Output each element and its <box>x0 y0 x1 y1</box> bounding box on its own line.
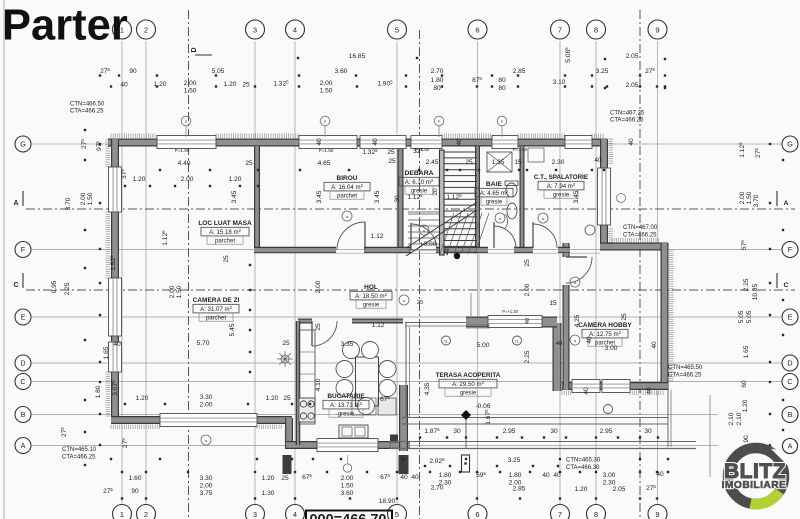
svg-text:40: 40 <box>542 472 550 479</box>
svg-text:3: 3 <box>253 510 257 519</box>
svg-text:1.65: 1.65 <box>743 345 750 358</box>
svg-text:G: G <box>787 140 793 149</box>
svg-text:6: 6 <box>475 510 479 519</box>
svg-text:P=1.50: P=1.50 <box>319 148 334 153</box>
svg-text:2.00: 2.00 <box>184 80 197 87</box>
svg-text:1.12: 1.12 <box>372 322 385 329</box>
svg-text:40: 40 <box>456 138 463 146</box>
svg-text:5.05: 5.05 <box>212 68 225 75</box>
svg-text:A: 4.65 m2: A: 4.65 m2 <box>480 189 509 197</box>
svg-text:CTN=467.00: CTN=467.00 <box>623 225 658 231</box>
svg-text:parchet: parchet <box>215 238 235 244</box>
svg-text:3.00: 3.00 <box>605 345 618 352</box>
svg-text:1.20: 1.20 <box>136 395 149 402</box>
svg-text:7: 7 <box>558 510 562 519</box>
svg-text:80: 80 <box>498 77 506 84</box>
svg-text:u: u <box>403 298 405 303</box>
svg-text:25: 25 <box>524 259 531 267</box>
svg-text:3.35: 3.35 <box>341 341 354 348</box>
svg-text:2: 2 <box>144 25 148 34</box>
svg-text:4: 4 <box>293 510 297 519</box>
svg-text:gresie: gresie <box>460 390 477 396</box>
svg-text:15: 15 <box>514 159 522 166</box>
svg-text:16.85: 16.85 <box>349 53 366 60</box>
svg-text:7: 7 <box>558 25 562 34</box>
svg-text:u: u <box>574 280 576 285</box>
svg-text:9: 9 <box>655 510 659 519</box>
svg-text:90: 90 <box>129 68 137 75</box>
svg-text:CTN=467.25: CTN=467.25 <box>610 111 645 117</box>
svg-text:3.45: 3.45 <box>374 190 381 203</box>
svg-text:1.80: 1.80 <box>431 77 444 84</box>
svg-text:1.20: 1.20 <box>133 176 146 183</box>
svg-text:2.85: 2.85 <box>513 486 526 493</box>
svg-text:2.10: 2.10 <box>728 412 735 425</box>
svg-text:E: E <box>21 313 26 322</box>
svg-text:25: 25 <box>387 149 395 156</box>
svg-text:2.00: 2.00 <box>524 283 531 296</box>
svg-text:18.90: 18.90 <box>379 498 396 505</box>
svg-text:parchet: parchet <box>206 315 226 321</box>
svg-text:P=1.90: P=1.90 <box>175 148 190 153</box>
svg-text:LOC LUAT MASA: LOC LUAT MASA <box>198 220 252 227</box>
svg-text:1.50: 1.50 <box>184 88 197 95</box>
svg-text:80: 80 <box>433 85 441 92</box>
svg-text:20: 20 <box>432 188 439 196</box>
svg-text:CAMERA HOBBY: CAMERA HOBBY <box>578 322 632 329</box>
svg-text:CAMERA DE ZI: CAMERA DE ZI <box>193 297 240 304</box>
svg-text:25: 25 <box>282 340 290 347</box>
svg-text:40: 40 <box>113 341 121 348</box>
svg-text:C.T., SPALATORIE: C.T., SPALATORIE <box>534 174 588 181</box>
svg-text:25: 25 <box>281 475 289 482</box>
svg-text:2.30: 2.30 <box>552 159 565 166</box>
svg-text:A: A <box>13 200 18 207</box>
svg-text:G: G <box>20 140 26 149</box>
svg-text:5.00: 5.00 <box>477 342 490 349</box>
svg-text:A: 29.50 m2: A: 29.50 m2 <box>452 380 484 388</box>
svg-text:P=+1.30: P=+1.30 <box>502 309 519 314</box>
svg-text:2.25: 2.25 <box>524 350 531 363</box>
svg-text:9.95: 9.95 <box>51 280 58 293</box>
svg-text:2.95: 2.95 <box>503 428 516 435</box>
svg-text:40: 40 <box>556 341 562 347</box>
svg-text:3.30: 3.30 <box>200 394 213 401</box>
svg-text:A: 15.18 m2: A: 15.18 m2 <box>209 228 241 236</box>
svg-text:1.50: 1.50 <box>87 192 94 205</box>
svg-text:2.05: 2.05 <box>613 486 626 493</box>
svg-text:A: A <box>784 200 789 207</box>
svg-text:u: u <box>346 214 348 219</box>
svg-text:1.50: 1.50 <box>341 483 354 490</box>
svg-text:A: 18.50 m2: A: 18.50 m2 <box>355 292 387 300</box>
svg-text:D: D <box>191 47 198 52</box>
svg-text:C: C <box>13 282 18 289</box>
svg-text:2.00: 2.00 <box>341 475 354 482</box>
svg-text:1.80: 1.80 <box>439 472 452 479</box>
svg-text:CTA=466.30: CTA=466.30 <box>566 465 600 471</box>
svg-text:25: 25 <box>465 159 473 166</box>
svg-text:u: u <box>205 438 207 443</box>
svg-text:25: 25 <box>242 82 250 89</box>
svg-text:80: 80 <box>498 85 506 92</box>
svg-text:1.30: 1.30 <box>262 490 275 497</box>
svg-text:A: 7.94 m2: A: 7.94 m2 <box>547 182 576 190</box>
svg-text:A: 13.73 m2: A: 13.73 m2 <box>330 401 362 409</box>
svg-text:-0.06: -0.06 <box>475 403 490 410</box>
svg-text:5.45: 5.45 <box>229 323 236 336</box>
svg-text:1.20: 1.20 <box>262 475 275 482</box>
svg-text:4.65: 4.65 <box>318 160 331 167</box>
svg-text:1.65: 1.65 <box>103 346 110 359</box>
svg-text:1.20: 1.20 <box>742 399 749 412</box>
svg-text:2.70: 2.70 <box>431 485 444 492</box>
svg-text:BUCATARIE: BUCATARIE <box>327 393 365 400</box>
svg-text:40: 40 <box>120 82 128 89</box>
svg-text:2.70: 2.70 <box>431 68 444 75</box>
svg-text:1.20: 1.20 <box>229 176 242 183</box>
svg-text:A: 12.75 m2: A: 12.75 m2 <box>589 330 621 338</box>
svg-text:30: 30 <box>644 428 652 435</box>
svg-text:1.50: 1.50 <box>176 285 183 298</box>
svg-text:A: 31.07 m2: A: 31.07 m2 <box>200 305 232 313</box>
svg-text:40: 40 <box>583 387 590 395</box>
svg-text:3.75: 3.75 <box>200 490 213 497</box>
svg-text:C: C <box>784 282 789 289</box>
svg-text:P=1.50: P=1.50 <box>513 147 528 152</box>
svg-text:2.00: 2.00 <box>169 285 176 298</box>
svg-text:D: D <box>787 359 792 368</box>
svg-text:P: P <box>185 120 188 124</box>
svg-text:2.45: 2.45 <box>426 159 439 166</box>
svg-text:gresie: gresie <box>338 411 355 417</box>
svg-text:1.80: 1.80 <box>95 385 102 398</box>
svg-text:1.50: 1.50 <box>320 88 333 95</box>
svg-text:C: C <box>20 377 25 386</box>
svg-text:90: 90 <box>743 435 750 443</box>
svg-text:30: 30 <box>453 428 461 435</box>
svg-text:8: 8 <box>594 25 598 34</box>
svg-text:A: A <box>788 442 793 451</box>
svg-text:40: 40 <box>586 336 593 344</box>
svg-text:D: D <box>20 359 25 368</box>
svg-text:CTN=465.50: CTN=465.50 <box>668 365 703 371</box>
svg-text:Parter: Parter <box>2 2 128 50</box>
svg-text:1.35: 1.35 <box>492 159 505 166</box>
svg-text:gresie: gresie <box>363 302 380 308</box>
svg-text:F: F <box>21 245 26 254</box>
svg-text:3.25: 3.25 <box>508 457 521 464</box>
svg-text:u: u <box>423 228 425 233</box>
svg-text:2.00: 2.00 <box>200 402 213 409</box>
svg-text:4.35: 4.35 <box>424 382 431 395</box>
svg-text:2.85: 2.85 <box>513 68 526 75</box>
svg-text:3.30: 3.30 <box>200 475 213 482</box>
svg-text:2.05: 2.05 <box>626 53 639 60</box>
svg-text:25: 25 <box>388 158 396 165</box>
svg-text:3.60: 3.60 <box>335 68 348 75</box>
svg-text:30: 30 <box>394 195 401 203</box>
svg-text:40: 40 <box>316 138 323 146</box>
svg-text:25: 25 <box>283 395 291 402</box>
svg-text:3: 3 <box>253 25 257 34</box>
svg-text:A: 16.04 m2: A: 16.04 m2 <box>331 183 363 191</box>
svg-text:2.00: 2.00 <box>315 280 322 293</box>
svg-text:5.05: 5.05 <box>738 310 745 323</box>
svg-text:25: 25 <box>443 248 450 256</box>
svg-text:3.45: 3.45 <box>231 190 238 203</box>
svg-text:25: 25 <box>417 300 423 306</box>
svg-text:CTN=466.50: CTN=466.50 <box>70 102 105 108</box>
svg-text:3.70: 3.70 <box>753 194 760 207</box>
svg-text:90: 90 <box>131 488 139 495</box>
svg-text:25: 25 <box>621 313 628 321</box>
svg-text:60: 60 <box>741 380 748 388</box>
svg-text:6: 6 <box>475 25 479 34</box>
svg-text:3.60: 3.60 <box>341 490 354 497</box>
svg-text:2.00: 2.00 <box>320 80 333 87</box>
svg-text:3.70: 3.70 <box>65 197 72 210</box>
svg-text:CTA=466.25: CTA=466.25 <box>623 233 657 239</box>
svg-text:25: 25 <box>245 160 253 167</box>
svg-text:u: u <box>542 216 544 221</box>
svg-text:CTA=466.25: CTA=466.25 <box>610 118 644 124</box>
svg-text:P: P <box>324 120 327 124</box>
svg-text:2: 2 <box>144 510 148 519</box>
svg-text:2.00: 2.00 <box>181 176 194 183</box>
svg-text:2.10: 2.10 <box>736 412 743 425</box>
svg-text:3.45: 3.45 <box>316 190 323 203</box>
svg-text:gresie: gresie <box>553 192 570 198</box>
svg-text:40: 40 <box>400 474 408 481</box>
svg-text:CTA=466.25: CTA=466.25 <box>62 455 96 461</box>
svg-text:2.00: 2.00 <box>80 192 87 205</box>
svg-text:1.80: 1.80 <box>509 472 522 479</box>
svg-text:P: P <box>438 120 441 124</box>
svg-text:1.20: 1.20 <box>154 81 167 88</box>
svg-text:HOL: HOL <box>364 284 378 291</box>
svg-text:TERASA ACOPERITA: TERASA ACOPERITA <box>436 372 501 379</box>
svg-text:2.95: 2.95 <box>600 428 613 435</box>
svg-text:F: F <box>788 245 793 254</box>
svg-text:u: u <box>574 338 576 343</box>
svg-text:3.10: 3.10 <box>553 79 566 86</box>
svg-text:2.00: 2.00 <box>739 191 746 204</box>
svg-text:C: C <box>787 377 792 386</box>
svg-text:10.85: 10.85 <box>752 283 759 300</box>
svg-text:1.50: 1.50 <box>746 191 753 204</box>
svg-text:25: 25 <box>315 323 322 331</box>
svg-text:CTN=465.10: CTN=465.10 <box>62 447 97 453</box>
svg-text:2.05: 2.05 <box>626 82 639 89</box>
svg-text:8: 8 <box>594 510 598 519</box>
svg-text:BAIE: BAIE <box>486 181 503 188</box>
svg-text:P: P <box>501 120 504 124</box>
svg-text:5.70: 5.70 <box>197 340 210 347</box>
svg-text:A: 6.10 m2: A: 6.10 m2 <box>405 178 434 186</box>
svg-text:4.10: 4.10 <box>315 378 322 391</box>
svg-text:40: 40 <box>628 138 635 146</box>
svg-text:1.12: 1.12 <box>371 233 384 240</box>
svg-text:5: 5 <box>395 510 399 519</box>
svg-text:B: B <box>788 410 793 419</box>
svg-text:CTN=465.30: CTN=465.30 <box>566 458 601 464</box>
svg-text:4.25: 4.25 <box>574 314 581 327</box>
svg-text:3.00: 3.00 <box>603 472 616 479</box>
svg-text:+0.00: +0.00 <box>420 241 437 248</box>
svg-text:30: 30 <box>550 428 558 435</box>
svg-text:2.25: 2.25 <box>64 282 71 295</box>
svg-text:IMOBILIARE: IMOBILIARE <box>722 480 787 491</box>
svg-text:2.00: 2.00 <box>200 483 213 490</box>
svg-text:CTA=466.25: CTA=466.25 <box>70 109 104 115</box>
svg-text:B: B <box>21 410 26 419</box>
svg-text:1.20: 1.20 <box>575 486 588 493</box>
svg-text:15: 15 <box>549 300 557 307</box>
svg-text:E: E <box>788 313 793 322</box>
svg-text:3.45: 3.45 <box>573 190 580 203</box>
svg-text:CTA=466.25: CTA=466.25 <box>668 373 702 379</box>
svg-text:40: 40 <box>651 341 658 349</box>
svg-text:40: 40 <box>525 318 531 324</box>
svg-text:5.05: 5.05 <box>746 310 753 323</box>
svg-text:A: A <box>21 441 26 450</box>
svg-text:9: 9 <box>655 25 659 34</box>
svg-text:40: 40 <box>594 157 602 164</box>
svg-text:1.20: 1.20 <box>224 81 237 88</box>
svg-text:parchet: parchet <box>337 193 357 199</box>
svg-text:000=466.70: 000=466.70 <box>309 512 386 519</box>
svg-text:1.60: 1.60 <box>129 475 142 482</box>
svg-text:1.20: 1.20 <box>266 395 279 402</box>
svg-text:25: 25 <box>223 255 230 263</box>
svg-text:gresie: gresie <box>486 199 503 205</box>
svg-text:BIROU: BIROU <box>337 175 358 182</box>
svg-text:3.25: 3.25 <box>596 68 609 75</box>
svg-text:40: 40 <box>411 474 419 481</box>
svg-text:u: u <box>499 216 501 221</box>
svg-text:2.25: 2.25 <box>743 278 750 291</box>
svg-text:4: 4 <box>293 25 297 34</box>
svg-text:1: 1 <box>120 510 124 519</box>
svg-text:40: 40 <box>646 387 653 395</box>
svg-text:5: 5 <box>395 25 399 34</box>
svg-text:4.40: 4.40 <box>178 160 191 167</box>
svg-text:40: 40 <box>372 138 379 146</box>
